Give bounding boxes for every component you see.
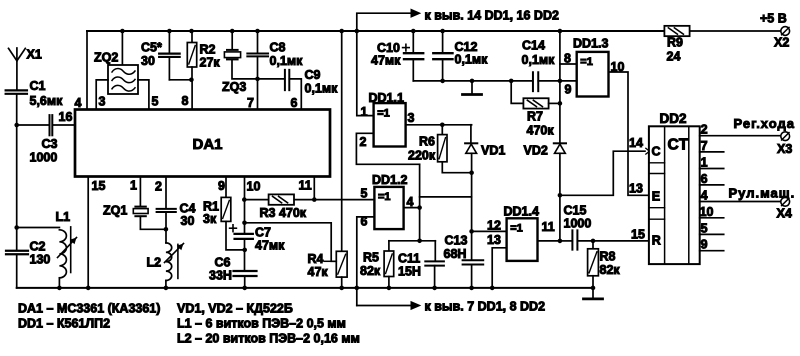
wire pin 15 (88, 177, 105, 288)
inductor L2 (147, 243, 184, 281)
wire L1 to ground bus (58, 278, 60, 288)
svg-text:1: 1 (130, 179, 137, 193)
wire arrow to pin 14 DD1, 16 DD2 (357, 9, 420, 31)
pin 4 wire (75, 31, 88, 110)
resistor R9 (664, 26, 689, 64)
pin 14 dynamic input caret (646, 148, 650, 154)
svg-text:11: 11 (299, 179, 312, 193)
svg-text:4: 4 (701, 189, 708, 203)
wire R4 to ground bus (341, 277, 343, 288)
capacitor C7 (235, 226, 286, 253)
wire antenna to C1 (16, 61, 18, 90)
net label к выв. 14 DD1, 16 DD2 (425, 9, 559, 23)
node C11 ground (432, 286, 437, 291)
svg-text:9: 9 (701, 238, 708, 252)
node pin15 ground (86, 286, 91, 291)
capacitor C14 (522, 39, 556, 92)
svg-text:82к: 82к (360, 264, 381, 278)
node input junction (14, 123, 19, 128)
node C12 bus (440, 29, 445, 34)
svg-text:6: 6 (701, 172, 708, 186)
svg-text:8: 8 (182, 94, 189, 108)
svg-text:6: 6 (291, 96, 298, 110)
node R7 right junction (558, 101, 563, 106)
svg-text:1000: 1000 (564, 217, 592, 231)
svg-text:VD1: VD1 (481, 144, 505, 158)
wire to C9 (258, 78, 285, 80)
wire left rail down to C2 (16, 125, 18, 250)
svg-text:47мк: 47мк (371, 54, 401, 68)
svg-text:C1: C1 (30, 79, 46, 93)
wire DD1.4 output (538, 240, 560, 242)
wire C2 to ground bus (16, 254, 18, 288)
node DD1.4 out (558, 239, 563, 244)
svg-text:10: 10 (247, 180, 261, 194)
wire C9 to pin 6 (289, 79, 301, 110)
wire DD1.2 output (404, 207, 420, 209)
wire DD1.3 output pin 10 (609, 60, 649, 196)
node ZQ2 bus (120, 29, 125, 34)
svg-text:30: 30 (181, 214, 195, 228)
wire C7 to C6 (244, 239, 246, 270)
node L1 tap (14, 225, 19, 230)
wire C1 to node (16, 94, 18, 125)
wire C5/R2 seat to pin 8 (169, 80, 192, 110)
resistor R7 (511, 81, 560, 138)
resistor R1 (203, 197, 231, 226)
wire ground rail (413, 80, 532, 82)
wire DD1.2 pin 6 to ground (357, 217, 375, 306)
wire ZQ3 top (231, 31, 233, 49)
svg-text:C9: C9 (305, 68, 321, 82)
wire R4 from +V bus (341, 31, 343, 251)
node R3 left (242, 197, 247, 202)
resistor R5 (360, 241, 394, 278)
diode VD1 (465, 143, 505, 157)
capacitor C1 (6, 79, 63, 108)
capacitor C10 (371, 31, 423, 68)
svg-text:DA1: DA1 (193, 136, 223, 153)
svg-text:E: E (652, 190, 660, 204)
wire DD2 pin 7 stub (700, 139, 724, 153)
svg-text:Рул.маш.: Рул.маш. (729, 186, 796, 201)
wire C15 to DD2 pin 15 (577, 228, 649, 242)
svg-text:C14: C14 (522, 39, 545, 53)
node C8 bus (255, 29, 260, 34)
wire C12 to rail (442, 59, 444, 81)
node R5 ground (387, 286, 392, 291)
svg-text:C2: C2 (30, 240, 46, 254)
svg-text:7: 7 (701, 139, 708, 153)
node pin 12 junction (469, 229, 474, 234)
svg-text:2: 2 (701, 123, 708, 137)
svg-text:2: 2 (155, 180, 162, 194)
resistor R6 (408, 125, 472, 173)
wire pin 11 (299, 177, 315, 200)
svg-text:13: 13 (629, 182, 643, 196)
svg-text:L2: L2 (147, 256, 162, 270)
svg-text:VD2: VD2 (524, 144, 548, 158)
wire DD2 pin 9 stub (700, 238, 724, 252)
capacitor C3 (30, 115, 58, 164)
svg-text:R6: R6 (419, 135, 435, 149)
wire +V top bus (left section) (87, 30, 664, 32)
IC DD2 counter CT (649, 111, 700, 264)
terminal X3 Рег.хода (734, 116, 795, 156)
wire pin3 to VD1 (470, 125, 473, 143)
svg-text:30: 30 (141, 54, 155, 68)
svg-text:9: 9 (565, 83, 572, 97)
node seat junction (189, 78, 194, 83)
wire DD2 pin 4 to X4 (700, 189, 781, 203)
wire C11 to ground bus (434, 266, 436, 288)
svg-text:8: 8 (564, 52, 571, 66)
svg-text:+5 В: +5 В (760, 12, 787, 26)
resistor R4 (308, 251, 348, 279)
wire R8 to ground bus (592, 276, 594, 288)
svg-text:0,1мк: 0,1мк (455, 53, 489, 67)
svg-text:47мк: 47мк (255, 239, 285, 253)
wire pin 1 (130, 177, 140, 207)
node R2 bus (189, 29, 194, 34)
wire C14 to pin9 line (538, 80, 560, 82)
svg-text:DD1.4: DD1.4 (504, 205, 539, 219)
svg-text:13: 13 (487, 233, 501, 247)
svg-text:L2 – 20 витков ПЭВ–2 0,16 мм: L2 – 20 витков ПЭВ–2 0,16 мм (177, 332, 360, 346)
legend DD1 (18, 317, 110, 331)
wire ZQ3 bottom (232, 60, 258, 79)
capacitor C5 (141, 41, 180, 69)
node C10 bus (411, 29, 416, 34)
wire C6 to ground bus (244, 276, 246, 288)
node C13 ground (469, 286, 474, 291)
svg-text:1: 1 (701, 156, 708, 170)
wire C5 top (168, 31, 170, 53)
svg-text:R9: R9 (667, 36, 683, 50)
svg-text:X1: X1 (27, 48, 42, 62)
node ZQ3 bus (230, 29, 235, 34)
svg-text:C8: C8 (270, 41, 286, 55)
wire ZQ2 right to pin 5 (138, 80, 159, 110)
wire L2 to ground bus (165, 281, 167, 288)
wire DD2 pin 1 stub (700, 156, 724, 170)
svg-text:82к: 82к (600, 263, 621, 277)
ground symbol mid (463, 81, 482, 95)
wire pin 2 (155, 177, 166, 208)
svg-text:220к: 220к (408, 149, 436, 163)
svg-text:0,1мк: 0,1мк (522, 53, 556, 67)
inductor L1 (56, 210, 77, 278)
svg-text:5,6мк: 5,6мк (30, 94, 64, 108)
svg-text:27к: 27к (200, 56, 221, 70)
node R7 stub (509, 79, 514, 84)
legend L1 (177, 317, 346, 331)
wire pin 10 (245, 177, 261, 233)
svg-text:1000: 1000 (30, 151, 58, 165)
svg-text:47к: 47к (308, 265, 329, 279)
svg-text:10: 10 (611, 60, 625, 74)
svg-text:DD1.3: DD1.3 (573, 37, 608, 51)
svg-text:=1: =1 (377, 107, 390, 119)
capacitor C6 (209, 256, 257, 283)
svg-text:C15: C15 (564, 204, 587, 218)
svg-text:X2: X2 (774, 36, 789, 50)
svg-text:R8: R8 (600, 250, 616, 264)
svg-text:68Н: 68Н (444, 247, 467, 261)
node ZQ1/C4/L2 (164, 227, 169, 232)
node R4 bus (339, 29, 344, 34)
svg-text:C11: C11 (398, 252, 420, 266)
svg-text:15Н: 15Н (398, 265, 421, 279)
wire pin 7 drop (247, 79, 258, 110)
capacitor C9 (285, 68, 338, 96)
node R1 junction (242, 248, 247, 253)
wire DD1.3 pin 9 (560, 81, 577, 97)
wire R1 bottom (226, 221, 245, 250)
crystal ZQ3 (222, 50, 246, 94)
svg-text:DD1 – К561ЛП2: DD1 – К561ЛП2 (18, 317, 110, 331)
svg-text:L1 – 6 витков ПЭВ–2 0,5 мм: L1 – 6 витков ПЭВ–2 0,5 мм (177, 317, 346, 331)
node R3 right (312, 197, 317, 202)
svg-text:DD2: DD2 (660, 111, 687, 126)
svg-text:R4: R4 (308, 252, 324, 266)
svg-text:11: 11 (542, 220, 555, 234)
wire DD1.3 pin 8 (560, 52, 577, 66)
wire ZQ2 left to pin 3 (96, 80, 108, 110)
node R6 top (440, 123, 445, 128)
svg-text:=1: =1 (580, 56, 593, 68)
wire ZQ1 to node (140, 217, 166, 229)
svg-text:9: 9 (218, 179, 225, 193)
wire pin 12 (472, 219, 507, 233)
wire DD2 pin 6 stub (700, 172, 724, 186)
svg-text:C5*: C5* (141, 41, 162, 55)
capacitor C11 (398, 241, 444, 279)
svg-text:16: 16 (59, 110, 73, 124)
svg-text:0,1мк: 0,1мк (270, 54, 304, 68)
svg-text:5: 5 (361, 187, 368, 201)
wire bus down to VD2 (559, 31, 561, 143)
node DD1.2 out (417, 205, 422, 210)
svg-text:C3: C3 (42, 137, 58, 151)
svg-text:4: 4 (75, 96, 82, 110)
svg-text:ZQ2: ZQ2 (94, 51, 118, 65)
svg-text:CT: CT (668, 137, 689, 154)
node L1 ground (57, 286, 62, 291)
wire DD2 pin 10 stub (700, 205, 724, 219)
svg-text:0,1мк: 0,1мк (305, 82, 339, 96)
wire DD2 pin 5 stub (700, 221, 724, 235)
svg-text:=1: =1 (510, 223, 523, 235)
gate DD1.2 (361, 173, 414, 229)
gate DD1.1 (369, 91, 406, 147)
wire tap to L1 (17, 227, 60, 229)
node R8 ground (591, 286, 596, 291)
svg-text:5: 5 (152, 95, 159, 109)
svg-text:1: 1 (361, 105, 368, 119)
svg-text:33Н: 33Н (209, 269, 232, 283)
svg-text:=1: =1 (378, 191, 391, 203)
node R8 top (591, 239, 596, 244)
crystal ZQ1 (103, 204, 148, 218)
svg-text:C: C (652, 145, 661, 159)
capacitor C12 (433, 31, 488, 67)
capacitor C15 (560, 204, 591, 250)
wire R5 to ground bus (388, 277, 390, 288)
wire C10 to rail (412, 59, 414, 81)
node C12 rail (440, 79, 445, 84)
terminal X2 +5V (760, 12, 790, 50)
svg-text:3: 3 (99, 95, 106, 109)
svg-text:10: 10 (700, 205, 714, 219)
node pin 9 junction (558, 79, 563, 84)
ground symbol right (584, 288, 603, 299)
wire DD1.4 pin 13 to ground (492, 248, 506, 288)
wire +V top bus (right of R9 to X2) (690, 30, 781, 32)
node VD1/R6 (469, 170, 474, 175)
svg-text:130: 130 (30, 253, 51, 267)
legend L2 (177, 332, 360, 346)
svg-text:ZQ1: ZQ1 (103, 204, 127, 218)
capacitor C2 (6, 240, 50, 267)
wire ground bottom bus (17, 287, 594, 289)
wire DD2 pin 2 to X3 (700, 123, 781, 137)
net label к выв. 7 DD1, 8 DD2 (425, 300, 546, 314)
crystal filter ZQ2 (94, 51, 138, 95)
IC DA1 (75, 110, 330, 177)
wire bus to DD1.1 pin 1 (357, 31, 374, 119)
wire pin11 node to DD1.2 pin 5 (314, 199, 374, 201)
antenna X1 (9, 48, 42, 62)
capacitor C13 (444, 234, 484, 265)
gate DD1.3 (573, 37, 609, 97)
wire C8 top (257, 31, 259, 53)
svg-text:R3 470к: R3 470к (260, 206, 307, 220)
node pin6 ground (355, 286, 360, 291)
wire DD1.2 out vertical (419, 164, 421, 241)
node C6 ground (242, 286, 247, 291)
svg-text:к выв. 7 DD1, 8 DD2: к выв. 7 DD1, 8 DD2 (425, 300, 546, 314)
svg-text:R: R (652, 234, 661, 248)
wire R2 top (191, 31, 193, 43)
svg-text:R5: R5 (363, 251, 379, 265)
svg-text:C13: C13 (445, 234, 468, 248)
node ground stub (470, 79, 475, 84)
wire C8 bottom (257, 56, 259, 79)
svg-text:DD1.2: DD1.2 (372, 173, 407, 187)
svg-text:R7: R7 (527, 110, 543, 124)
wire R5/C11 top link (389, 240, 435, 242)
svg-text:к выв. 14 DD1, 16 DD2: к выв. 14 DD1, 16 DD2 (425, 9, 559, 23)
diode VD2 (524, 143, 567, 157)
wire VD2 to DD2 pin 14 (560, 136, 646, 195)
node pin13 ground (490, 286, 495, 291)
node VD2 branch (558, 193, 563, 198)
wire C3 to DA1 pin 16 (52, 110, 75, 125)
capacitor C4 (157, 202, 196, 229)
wire C4 to node (165, 212, 167, 243)
capacitor C10 polarity + (403, 44, 410, 51)
svg-text:VD1, VD2 – КД522Б: VD1, VD2 – КД522Б (177, 302, 293, 316)
svg-text:DA1 – МС3361 (КА3361): DA1 – МС3361 (КА3361) (18, 302, 160, 316)
wire branch to R4 (245, 223, 337, 261)
svg-text:15: 15 (631, 228, 645, 242)
svg-text:R2: R2 (200, 43, 216, 57)
svg-text:ZQ3: ZQ3 (222, 80, 246, 94)
node DD1.1 bus riser (355, 29, 360, 34)
wire link DD1.2 out to VD1 line (420, 196, 472, 198)
wire VD2 down (559, 153, 561, 241)
svg-text:15: 15 (92, 179, 106, 193)
svg-text:12: 12 (487, 219, 501, 233)
svg-text:470к: 470к (527, 124, 555, 138)
wire node to C3 (17, 124, 49, 126)
resistor R2 (187, 43, 220, 70)
svg-text:X4: X4 (777, 207, 792, 221)
pin 16 label (0, 0, 1, 1)
node pin9 vertical bus (558, 29, 563, 34)
capacitor C8 (247, 41, 303, 69)
svg-text:24: 24 (667, 50, 681, 64)
svg-text:Рег.хода: Рег.хода (734, 116, 795, 131)
wire pin 9 (218, 177, 226, 198)
svg-text:X3: X3 (777, 142, 792, 156)
capacitor C7 polarity + (230, 225, 237, 232)
svg-text:C6: C6 (215, 256, 231, 270)
node R4 ground (339, 286, 344, 291)
gate DD1.4 (487, 205, 555, 261)
wire VD1 down (471, 153, 473, 259)
legend DA1 (18, 302, 160, 316)
legend VD (177, 302, 293, 316)
wire C13 to ground bus (471, 265, 473, 288)
svg-text:DD1.1: DD1.1 (369, 91, 404, 105)
wire arrow to pin 7 DD1, 8 DD2 (357, 302, 420, 310)
resistor R3 (244, 194, 314, 220)
node R4 branch (242, 221, 247, 226)
svg-text:2: 2 (360, 135, 367, 149)
svg-text:5: 5 (701, 221, 708, 235)
wire DD1.1 pin 2 feedback (356, 133, 419, 164)
wire DD1.1 output pin 3 (406, 111, 471, 125)
wire C5 bottom (168, 57, 170, 80)
svg-text:3: 3 (408, 111, 415, 125)
svg-text:3к: 3к (203, 212, 217, 226)
node L2 ground (164, 286, 169, 291)
resistor R8 (588, 241, 621, 277)
svg-text:C7: C7 (255, 226, 271, 240)
wire ZQ2 top (121, 31, 123, 65)
wire R2 bottom (191, 67, 193, 80)
node C5 bus (167, 29, 172, 34)
node R5/C11 junction (417, 239, 422, 244)
terminal X4 Рул.маш. (729, 186, 796, 221)
svg-text:L1: L1 (56, 210, 71, 224)
node pin7 junction (255, 77, 260, 82)
svg-text:7: 7 (247, 96, 254, 110)
svg-text:14: 14 (629, 136, 643, 150)
